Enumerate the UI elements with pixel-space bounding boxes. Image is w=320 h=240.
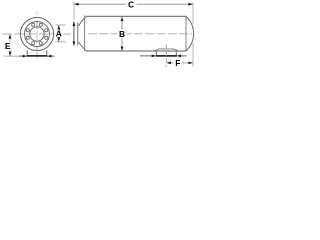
bolt hole 8 <box>39 42 42 45</box>
shell top line <box>86 15 186 17</box>
side view outlet pipe bottom edge <box>156 55 177 57</box>
dimension C right extension line <box>192 2 194 24</box>
bolt hole 2 <box>45 36 48 39</box>
shell right seam <box>185 16 187 51</box>
svg-text:B: B <box>119 29 125 39</box>
dimension E extension line (pipe bottom, to the left) <box>4 55 27 57</box>
end view outlet pipe stub bottom edge <box>27 55 48 57</box>
outlet saddle bump <box>154 49 179 51</box>
dimension B lower arrow <box>121 47 124 51</box>
dimension C line <box>75 3 193 5</box>
flange outer circle <box>20 17 53 50</box>
dimension C left extension line <box>73 2 75 21</box>
end view pipe OD dim right arrow <box>49 55 55 57</box>
bolt hole 4 <box>32 23 35 26</box>
bolt hole 1 <box>45 29 48 32</box>
dimension A upper arrow <box>57 25 60 29</box>
bolt hole 5 <box>26 29 29 32</box>
dimension A upper extension tick <box>56 24 67 26</box>
inlet flange front line with arrows <box>73 22 75 46</box>
end view outlet pipe stub right wall <box>46 50 48 55</box>
side view pipe OD dim left arrow <box>140 55 154 57</box>
flange raised-face circle <box>25 22 50 47</box>
bolt hole 7 <box>32 42 35 45</box>
dimension B upper arrow <box>121 17 124 21</box>
end view outlet pipe stub left wall <box>26 50 28 55</box>
svg-text:E: E <box>5 41 11 51</box>
outlet pipe centerline <box>165 44 167 67</box>
svg-text:F: F <box>175 58 180 68</box>
dimension A lower arrow <box>57 37 60 41</box>
side view pipe OD dim right arrow <box>179 55 187 57</box>
side view outlet pipe right wall <box>175 51 177 55</box>
dimension A line <box>58 25 60 41</box>
shell bottom line <box>86 50 186 52</box>
shell left dome upper curve <box>79 16 87 26</box>
dimension E upper arrow <box>9 34 12 38</box>
shell right dome <box>186 16 194 51</box>
end view pipe OD dim left arrow <box>19 55 25 57</box>
dimension C right arrow <box>188 3 192 6</box>
dimension A lower extension tick <box>56 41 67 43</box>
dimension F left arrow <box>167 62 171 65</box>
dimension E lower arrow <box>9 52 12 56</box>
dimension E line <box>9 34 11 56</box>
dimension C left arrow <box>74 3 78 6</box>
shell left dome lower curve <box>79 42 87 51</box>
inlet flange back line <box>77 23 79 46</box>
end view: horizontal centerline <box>2 33 71 35</box>
cylinder centerline <box>88 33 192 35</box>
bore circle <box>30 27 44 41</box>
shell left seam <box>84 15 86 51</box>
dimension B line <box>121 17 123 51</box>
svg-text:A: A <box>56 29 62 39</box>
dimension F right arrow <box>188 62 192 65</box>
bolt hole 3 <box>39 23 42 26</box>
svg-text:C: C <box>128 0 134 10</box>
dimension F line <box>167 62 193 64</box>
end view: vertical centerline <box>36 12 38 14</box>
bolt hole 6 <box>26 36 29 39</box>
dimension F right extension line <box>192 43 194 67</box>
side view outlet pipe left wall <box>155 51 157 55</box>
